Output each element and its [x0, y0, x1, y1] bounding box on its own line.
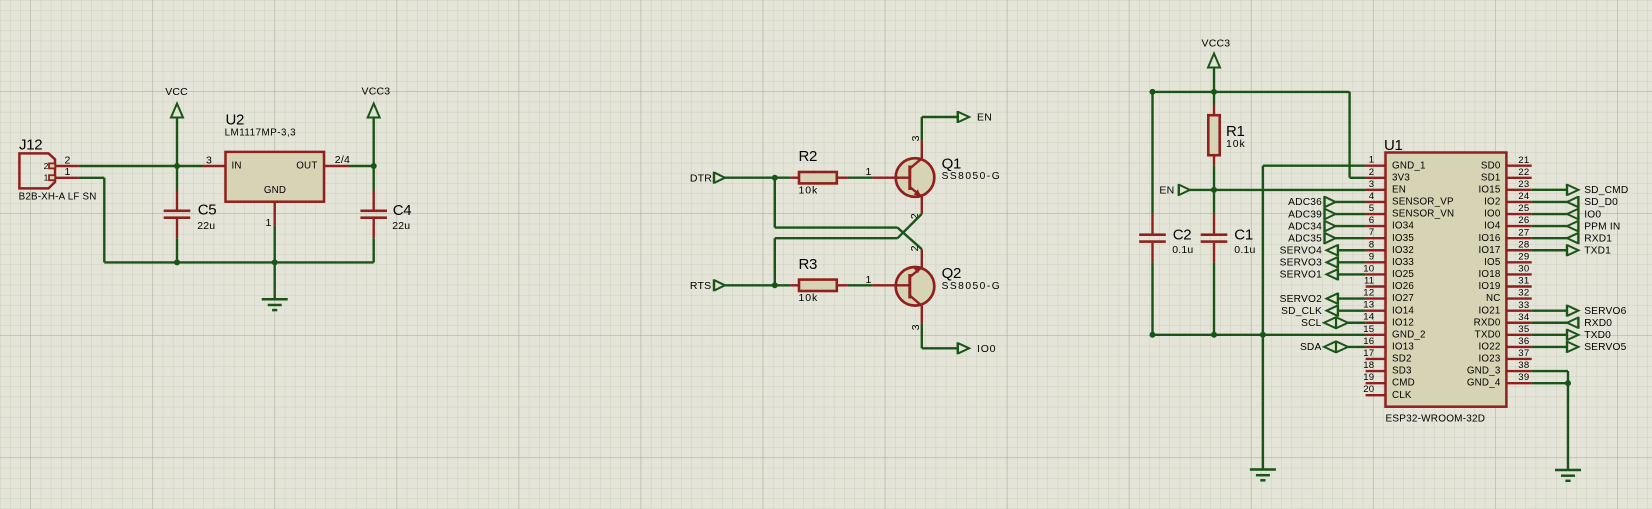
svg-text:SERVO3: SERVO3 — [1280, 258, 1322, 269]
svg-text:VCC: VCC — [165, 86, 188, 98]
Q2 base pin stub — [865, 274, 895, 286]
svg-text:Q2: Q2 — [942, 265, 961, 282]
wire R2 to Q1 base — [847, 176, 872, 178]
wire VCC3 rail down to C2 — [1151, 92, 1153, 214]
svg-text:2: 2 — [909, 245, 921, 251]
resistor R1 — [1208, 105, 1245, 166]
connector J12 body — [19, 137, 55, 189]
U1 pin 22 SD1 — [1481, 167, 1532, 184]
svg-text:IO0: IO0 — [977, 343, 996, 355]
U2 pin 1 GND stub — [265, 202, 274, 229]
svg-text:2: 2 — [64, 154, 70, 166]
ground (below U1 left) — [1250, 470, 1276, 481]
svg-text:7: 7 — [1369, 227, 1375, 238]
U1 pin 3 EN — [1366, 179, 1406, 196]
svg-text:24: 24 — [1518, 191, 1530, 202]
U1 pin 36 IO22 — [1478, 336, 1531, 353]
svg-text:SD3: SD3 — [1392, 366, 1412, 377]
input terminal IO0 — [1532, 208, 1602, 220]
wire DTR junction to Q2-side crossover — [775, 178, 922, 250]
node RTS junction — [772, 282, 778, 288]
svg-text:1: 1 — [865, 274, 871, 286]
svg-text:20: 20 — [1363, 384, 1374, 395]
wire R3 to Q2 base — [847, 284, 872, 286]
power terminal VCC3 (left) — [362, 86, 391, 167]
U1 pin 17 SD2 — [1363, 348, 1411, 365]
svg-text:SD2: SD2 — [1392, 354, 1412, 365]
svg-text:1: 1 — [44, 173, 49, 183]
svg-text:5: 5 — [1369, 203, 1375, 214]
svg-text:RXD0: RXD0 — [1584, 318, 1612, 329]
U1 pin 7 IO35 — [1366, 227, 1415, 244]
U2 pin 2/4 OUT stub — [324, 154, 350, 166]
input terminal EN — [1159, 184, 1189, 197]
svg-text:SERVO2: SERVO2 — [1280, 294, 1322, 305]
U1 pin 28 IO17 — [1478, 239, 1531, 256]
svg-text:GND_3: GND_3 — [1467, 366, 1501, 377]
svg-text:IO22: IO22 — [1478, 342, 1500, 353]
svg-text:NC: NC — [1486, 293, 1501, 304]
svg-text:IO16: IO16 — [1478, 233, 1500, 244]
svg-text:RTS: RTS — [690, 280, 711, 292]
input terminal PPM IN — [1532, 220, 1621, 232]
svg-text:TXD1: TXD1 — [1584, 246, 1611, 257]
svg-text:PPM IN: PPM IN — [1584, 221, 1620, 232]
Q2 emitter stub pin 2 — [909, 245, 922, 267]
svg-text:SCL: SCL — [1301, 318, 1322, 329]
svg-text:C2: C2 — [1173, 227, 1192, 244]
svg-text:IO19: IO19 — [1478, 281, 1500, 292]
output terminal SERVO5 — [1532, 341, 1627, 353]
svg-text:35: 35 — [1518, 324, 1529, 335]
svg-text:12: 12 — [1363, 288, 1374, 299]
svg-text:GND_1: GND_1 — [1392, 160, 1426, 171]
transistor Q2 SS8050-G — [896, 265, 1001, 306]
svg-text:3: 3 — [206, 154, 212, 166]
svg-text:37: 37 — [1518, 348, 1529, 359]
U1 pin 24 IO2 — [1484, 191, 1532, 208]
svg-text:4: 4 — [1369, 191, 1375, 202]
wire J12 pin1 down to ground rail — [79, 178, 177, 263]
node VCC3 top junction — [1211, 89, 1217, 95]
resistor R2 — [790, 148, 847, 196]
svg-text:2: 2 — [44, 161, 49, 171]
input terminal RXD1 — [1532, 232, 1613, 244]
svg-text:ADC39: ADC39 — [1288, 209, 1322, 220]
power terminal VCC — [165, 86, 188, 166]
svg-text:IO34: IO34 — [1392, 221, 1414, 232]
svg-text:0.1u: 0.1u — [1234, 244, 1255, 256]
output terminal SERVO4 — [1280, 244, 1366, 256]
input terminal ADC35 — [1288, 232, 1365, 244]
svg-text:38: 38 — [1518, 360, 1529, 371]
transistor Q1 SS8050-G — [896, 155, 1001, 196]
wire to 3V3 pin — [1350, 92, 1366, 178]
svg-text:IO32: IO32 — [1392, 245, 1414, 256]
U1 pin 16 IO13 — [1363, 336, 1414, 353]
Q2 collector stub pin 3 — [910, 306, 922, 330]
regulator U2 LM1117MP-3,3 body — [225, 111, 324, 201]
svg-text:TXD0: TXD0 — [1584, 330, 1611, 341]
svg-text:GND_4: GND_4 — [1467, 378, 1501, 389]
input terminal SD_D0 — [1532, 196, 1618, 208]
wire Q2 collector to IO0 — [922, 323, 958, 348]
svg-text:26: 26 — [1518, 215, 1529, 226]
U1 pin 1 GND_1 — [1366, 155, 1426, 172]
U1 pin 26 IO4 — [1484, 215, 1532, 232]
IC U1 ESP32-WROOM-32D body — [1384, 137, 1506, 425]
svg-text:30: 30 — [1518, 264, 1529, 275]
svg-text:LM1117MP-3,3: LM1117MP-3,3 — [225, 127, 297, 138]
U1 pin 23 IO15 — [1478, 179, 1531, 196]
svg-text:22u: 22u — [392, 220, 410, 232]
svg-text:RXD0: RXD0 — [1474, 317, 1501, 328]
svg-text:10k: 10k — [1226, 138, 1246, 150]
svg-text:10k: 10k — [799, 184, 819, 196]
input terminal RTS — [690, 279, 725, 292]
U1 pin 32 NC — [1486, 288, 1532, 305]
node VCC junction — [174, 163, 180, 169]
svg-text:2/4: 2/4 — [335, 154, 350, 166]
wire U2 OUT to VCC3 node — [350, 163, 377, 169]
svg-text:IO5: IO5 — [1484, 257, 1501, 268]
svg-text:SERVO4: SERVO4 — [1280, 246, 1322, 257]
U1 pin 30 IO18 — [1478, 264, 1531, 281]
ground (left section) — [262, 262, 288, 310]
wire U2 GND to rail — [274, 226, 276, 263]
svg-text:CMD: CMD — [1392, 378, 1415, 389]
wire EN to U1 pin 3 — [1190, 189, 1366, 191]
wire Q1 emitter to RTS-side crossover — [775, 214, 922, 285]
svg-text:2: 2 — [1369, 167, 1375, 178]
bidirectional terminal SCL — [1301, 317, 1366, 329]
svg-text:39: 39 — [1518, 372, 1529, 383]
input terminal RXD0 — [1532, 317, 1613, 329]
svg-text:EN: EN — [1392, 184, 1406, 195]
U1 pin 38 GND_3 — [1467, 360, 1532, 377]
svg-text:IO21: IO21 — [1478, 305, 1500, 316]
svg-text:3V3: 3V3 — [1392, 172, 1410, 183]
svg-text:EN: EN — [1159, 184, 1174, 196]
svg-text:DTR: DTR — [690, 173, 712, 185]
svg-text:RXD1: RXD1 — [1584, 233, 1612, 244]
ground (below U1 right) — [1555, 470, 1581, 481]
U1 pin 6 IO34 — [1366, 215, 1415, 232]
svg-text:TXD0: TXD0 — [1475, 329, 1501, 340]
svg-text:SERVO5: SERVO5 — [1584, 342, 1626, 353]
capacitor C2 — [1139, 214, 1193, 335]
U1 pin 8 IO32 — [1366, 239, 1414, 256]
svg-text:IO35: IO35 — [1392, 233, 1414, 244]
svg-text:10k: 10k — [799, 292, 819, 304]
svg-text:ADC35: ADC35 — [1288, 233, 1322, 244]
wire DTR to R2 — [724, 176, 790, 178]
U1 pin 21 SD0 — [1481, 155, 1532, 172]
svg-text:19: 19 — [1363, 372, 1374, 383]
svg-text:IO4: IO4 — [1484, 221, 1501, 232]
U1 pin 12 IO27 — [1363, 288, 1414, 305]
output terminal SD_CLK — [1281, 305, 1365, 317]
wire Q1 collector to EN — [922, 117, 958, 141]
svg-text:SD0: SD0 — [1481, 160, 1501, 171]
U1 pin 9 IO33 — [1366, 251, 1415, 268]
svg-text:IO26: IO26 — [1392, 281, 1414, 292]
svg-text:IO2: IO2 — [1484, 197, 1500, 208]
svg-text:GND_2: GND_2 — [1392, 329, 1426, 340]
svg-text:28: 28 — [1518, 239, 1529, 250]
U1 pin 39 GND_4 — [1467, 372, 1532, 389]
svg-text:EN: EN — [977, 112, 992, 124]
output terminal EN — [958, 111, 992, 124]
wire R1 to EN node — [1211, 166, 1217, 193]
svg-text:17: 17 — [1363, 348, 1374, 359]
svg-text:SERVO6: SERVO6 — [1584, 306, 1626, 317]
svg-text:13: 13 — [1363, 300, 1374, 311]
output terminal IO0 — [958, 342, 997, 355]
svg-text:1: 1 — [265, 217, 271, 229]
svg-text:C1: C1 — [1234, 227, 1253, 244]
svg-text:IO0: IO0 — [1484, 209, 1501, 220]
svg-text:23: 23 — [1518, 179, 1529, 190]
svg-text:SD_CMD: SD_CMD — [1584, 185, 1628, 196]
capacitor C4 — [360, 166, 411, 262]
svg-text:R2: R2 — [799, 148, 818, 165]
svg-text:21: 21 — [1518, 155, 1529, 166]
svg-text:ADC34: ADC34 — [1288, 221, 1322, 232]
output terminal SERVO6 — [1532, 305, 1627, 317]
U1 pin 2 3V3 — [1366, 167, 1411, 184]
svg-text:32: 32 — [1518, 288, 1529, 299]
svg-text:OUT: OUT — [296, 160, 317, 171]
wire GND_1 down to ground — [1263, 166, 1366, 470]
input terminal ADC36 — [1288, 196, 1365, 208]
U1 pin 31 IO19 — [1478, 276, 1531, 293]
U1 pin 13 IO14 — [1363, 300, 1414, 317]
svg-text:IO15: IO15 — [1478, 184, 1500, 195]
U1 pin 11 IO26 — [1364, 276, 1414, 293]
svg-text:22u: 22u — [197, 220, 215, 232]
wire VCC3 top rail — [1150, 89, 1350, 95]
svg-text:36: 36 — [1518, 336, 1529, 347]
output terminal SD_CMD — [1532, 184, 1629, 196]
svg-text:U1: U1 — [1384, 137, 1403, 154]
svg-text:1: 1 — [865, 166, 871, 178]
svg-text:25: 25 — [1518, 203, 1529, 214]
svg-text:18: 18 — [1363, 360, 1374, 371]
wire ground rail to GND_2 — [1150, 332, 1366, 338]
svg-text:33: 33 — [1518, 300, 1529, 311]
svg-text:SS8050-G: SS8050-G — [942, 171, 1002, 182]
Q1 base pin stub — [865, 166, 895, 178]
input terminal DTR — [690, 172, 725, 185]
svg-text:Q1: Q1 — [942, 155, 961, 172]
svg-text:10: 10 — [1363, 263, 1374, 274]
svg-text:34: 34 — [1518, 312, 1530, 323]
wire J12 pin2 to VCC node / U2 IN — [79, 165, 203, 167]
U1 pin 19 CMD — [1363, 372, 1415, 389]
U1 pin 34 RXD0 — [1474, 312, 1532, 329]
output terminal SERVO1 — [1280, 268, 1366, 280]
svg-text:ADC36: ADC36 — [1288, 197, 1322, 208]
U1 pin 5 SENSOR_VN — [1366, 203, 1455, 220]
U1 pin 18 SD3 — [1363, 360, 1412, 377]
svg-text:IN: IN — [232, 160, 242, 171]
svg-text:1: 1 — [64, 166, 70, 178]
svg-text:15: 15 — [1363, 324, 1374, 335]
svg-text:IO33: IO33 — [1392, 257, 1414, 268]
U2 pin 3 IN stub — [203, 154, 226, 166]
U1 pin 14 IO12 — [1363, 312, 1414, 329]
svg-text:GND: GND — [264, 185, 286, 196]
output terminal TXD1 — [1532, 244, 1611, 256]
svg-text:27: 27 — [1518, 227, 1529, 238]
node DTR junction — [772, 175, 778, 181]
output terminal TXD0 — [1532, 329, 1611, 341]
svg-text:SENSOR_VN: SENSOR_VN — [1392, 209, 1454, 220]
svg-text:3: 3 — [910, 324, 922, 330]
U1 pin 27 IO16 — [1478, 227, 1531, 244]
wire ground rail left section — [174, 259, 374, 265]
J12 pin 1 — [44, 166, 79, 183]
J12 part value label — [19, 192, 97, 203]
U1 pin 15 GND_2 — [1363, 324, 1425, 341]
Q1 emitter stub pin 2 — [909, 197, 922, 220]
capacitor C1 — [1201, 190, 1256, 335]
svg-text:IO12: IO12 — [1392, 317, 1414, 328]
svg-text:R3: R3 — [799, 256, 818, 273]
svg-text:VCC3: VCC3 — [1202, 38, 1231, 50]
U1 pin 29 IO5 — [1484, 251, 1532, 268]
output terminal SERVO2 — [1280, 293, 1366, 305]
U1 pin 4 SENSOR_VP — [1366, 191, 1454, 208]
svg-text:29: 29 — [1518, 251, 1529, 262]
power terminal VCC3 (right) — [1202, 38, 1231, 105]
svg-text:IO13: IO13 — [1392, 342, 1414, 353]
U1 pin 20 CLK — [1363, 384, 1412, 401]
svg-text:14: 14 — [1363, 312, 1375, 323]
U1 pin 37 IO23 — [1478, 348, 1531, 365]
svg-text:SD_D0: SD_D0 — [1584, 197, 1618, 208]
svg-text:B2B-XH-A LF SN: B2B-XH-A LF SN — [19, 192, 97, 203]
svg-text:3: 3 — [1369, 179, 1375, 190]
svg-text:IO0: IO0 — [1584, 209, 1601, 220]
svg-text:J12: J12 — [19, 137, 42, 154]
svg-text:C4: C4 — [393, 202, 412, 219]
input terminal ADC39 — [1288, 208, 1365, 220]
U1 pin 35 TXD0 — [1475, 324, 1532, 341]
svg-text:ESP32-WROOM-32D: ESP32-WROOM-32D — [1386, 414, 1486, 425]
svg-text:SD1: SD1 — [1481, 172, 1501, 183]
J12 pin 2 — [44, 154, 79, 171]
svg-text:IO25: IO25 — [1392, 269, 1414, 280]
U1 pin 10 IO25 — [1363, 263, 1414, 280]
svg-text:IO17: IO17 — [1478, 245, 1500, 256]
svg-text:31: 31 — [1518, 276, 1529, 287]
svg-text:SS8050-G: SS8050-G — [942, 281, 1002, 292]
svg-text:3: 3 — [910, 135, 922, 141]
svg-text:16: 16 — [1363, 336, 1374, 347]
svg-text:0.1u: 0.1u — [1172, 244, 1193, 256]
svg-text:SDA: SDA — [1300, 342, 1322, 353]
svg-text:6: 6 — [1369, 215, 1375, 226]
U1 pin 25 IO0 — [1484, 203, 1532, 220]
svg-text:9: 9 — [1369, 251, 1375, 262]
svg-text:CLK: CLK — [1392, 390, 1412, 401]
U1 pin 33 IO21 — [1478, 300, 1531, 317]
output terminal SERVO3 — [1280, 256, 1366, 268]
svg-text:C5: C5 — [198, 202, 217, 219]
svg-text:IO23: IO23 — [1478, 354, 1500, 365]
resistor R3 — [790, 256, 847, 304]
svg-text:IO27: IO27 — [1392, 293, 1414, 304]
svg-text:SD_CLK: SD_CLK — [1281, 306, 1322, 317]
capacitor C5 — [164, 166, 217, 262]
svg-text:VCC3: VCC3 — [362, 86, 391, 98]
svg-text:8: 8 — [1369, 239, 1375, 250]
svg-text:SERVO1: SERVO1 — [1280, 270, 1322, 281]
wire RTS to R3 — [724, 284, 790, 286]
Q1 collector stub pin 3 — [910, 135, 922, 158]
bidirectional terminal SDA — [1300, 341, 1366, 353]
svg-text:U2: U2 — [226, 111, 245, 128]
svg-text:22: 22 — [1518, 167, 1529, 178]
svg-text:11: 11 — [1364, 276, 1374, 287]
wire GND_3 to ground — [1532, 371, 1568, 383]
input terminal ADC34 — [1288, 220, 1365, 232]
svg-text:SENSOR_VP: SENSOR_VP — [1392, 197, 1454, 208]
svg-text:IO18: IO18 — [1478, 269, 1500, 280]
wire GND_4 to ground — [1532, 380, 1571, 470]
svg-text:IO14: IO14 — [1392, 305, 1414, 316]
svg-text:1: 1 — [1369, 155, 1375, 166]
